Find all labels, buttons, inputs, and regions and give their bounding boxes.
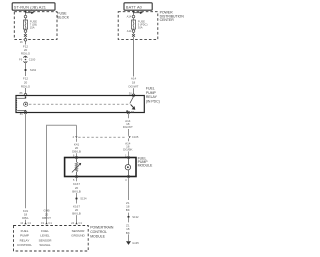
svg-text:PUMP: PUMP xyxy=(20,234,29,238)
svg-text:15A: 15A xyxy=(30,25,35,29)
svg-text:MODULE: MODULE xyxy=(90,235,105,239)
svg-text:BK: BK xyxy=(126,231,130,235)
svg-text:SENSOR: SENSOR xyxy=(72,229,86,233)
svg-text:RELAY: RELAY xyxy=(20,238,30,242)
svg-text:F6: F6 xyxy=(19,58,23,62)
svg-text:30A: 30A xyxy=(138,25,143,29)
svg-text:DB/LB: DB/LB xyxy=(72,150,81,154)
svg-text:C1: C1 xyxy=(28,221,32,225)
svg-text:SIGNAL: SIGNAL xyxy=(39,243,50,247)
svg-text:A11: A11 xyxy=(127,29,132,33)
svg-text:CONTROL: CONTROL xyxy=(90,230,107,234)
svg-text:S134: S134 xyxy=(80,197,87,201)
svg-text:ST-RUN (JB) A21: ST-RUN (JB) A21 xyxy=(14,4,46,9)
svg-text:85: 85 xyxy=(20,112,23,116)
svg-text:GROUND: GROUND xyxy=(71,234,85,238)
svg-text:30: 30 xyxy=(129,91,132,95)
svg-text:CONTROL: CONTROL xyxy=(17,243,32,247)
svg-text:DG/WT: DG/WT xyxy=(129,85,139,89)
svg-text:BLOCK: BLOCK xyxy=(57,16,69,20)
svg-text:BATT A0: BATT A0 xyxy=(126,4,143,9)
svg-text:(IN PDC): (IN PDC) xyxy=(146,99,160,103)
svg-text:86: 86 xyxy=(20,91,23,95)
svg-text:A14: A14 xyxy=(127,15,132,19)
svg-text:BK: BK xyxy=(126,208,130,212)
svg-text:POWERTRAIN: POWERTRAIN xyxy=(90,225,114,229)
svg-text:24: 24 xyxy=(71,221,74,225)
svg-text:BK/LB: BK/LB xyxy=(72,189,81,193)
svg-text:S162: S162 xyxy=(30,68,37,72)
svg-text:CENTER: CENTER xyxy=(160,18,175,22)
svg-text:16: 16 xyxy=(20,40,23,44)
svg-text:S132: S132 xyxy=(132,215,139,219)
svg-text:C105: C105 xyxy=(132,135,139,139)
svg-text:RD/LG: RD/LG xyxy=(21,85,31,89)
svg-text:LEVEL: LEVEL xyxy=(40,234,50,238)
svg-text:MODULE: MODULE xyxy=(138,164,153,168)
svg-text:C1: C1 xyxy=(79,221,83,225)
svg-text:FUEL: FUEL xyxy=(21,229,29,233)
svg-text:19: 19 xyxy=(41,221,44,225)
svg-text:BK/LB: BK/LB xyxy=(72,212,81,216)
svg-text:RD/LG: RD/LG xyxy=(21,52,31,56)
svg-text:G135: G135 xyxy=(132,241,139,245)
svg-text:C1: C1 xyxy=(48,221,52,225)
svg-text:DB/L: DB/L xyxy=(22,216,29,220)
svg-text:DB/VT: DB/VT xyxy=(42,216,51,220)
svg-text:FUEL: FUEL xyxy=(41,229,49,233)
svg-text:SENSOR: SENSOR xyxy=(39,238,53,242)
svg-text:DG/BK: DG/BK xyxy=(123,148,132,152)
svg-text:12: 12 xyxy=(20,221,23,225)
svg-text:C100: C100 xyxy=(29,58,36,62)
svg-text:DG/WT: DG/WT xyxy=(123,125,133,129)
svg-text:87: 87 xyxy=(131,110,134,114)
